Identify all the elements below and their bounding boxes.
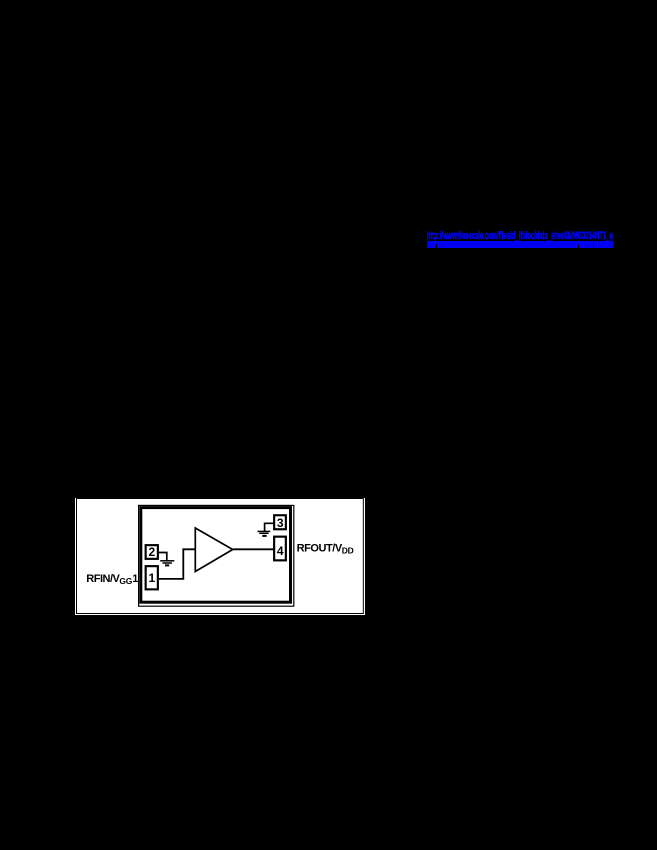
package outline (thick line) [141, 508, 291, 603]
pin 4 box [274, 537, 286, 561]
wire: input (pin 1 to amplifier) [159, 549, 195, 579]
package outline (outer thin line) [139, 505, 294, 606]
ground symbol (pin 3) [258, 531, 271, 536]
wire: pin 2 to ground [159, 553, 167, 561]
svg-text:3: 3 [277, 516, 284, 530]
pin 1 box [146, 566, 158, 589]
wire: output (amplifier to pin 4) [233, 548, 275, 550]
pin 2 box [146, 545, 158, 559]
amplifier A1 (triangle) [195, 528, 232, 572]
wire: pin 3 to ground [265, 523, 275, 531]
pin 3 box [274, 515, 286, 529]
hyperlink (document URL, blue underlined) [427, 231, 613, 248]
svg-text:4: 4 [277, 544, 284, 558]
svg-text:1: 1 [149, 571, 156, 585]
ground symbol (pin 2) [160, 561, 174, 566]
svg-text:2: 2 [149, 545, 156, 559]
figure frame [77, 499, 364, 614]
figure: functional block diagram (white panel) [75, 498, 365, 615]
